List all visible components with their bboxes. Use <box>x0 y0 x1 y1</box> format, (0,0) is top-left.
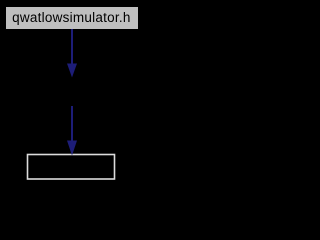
edge arrow 1 (from qwatlowsimulator.h to hidden node) <box>67 29 77 78</box>
svg-text:qwatlowsimulator.h: qwatlowsimulator.h <box>12 10 131 25</box>
node qwatlowsimulator.h <box>6 7 138 29</box>
edge arrow 2 (from hidden node to bottom node) <box>67 106 77 156</box>
node bottom (unlabeled include target) <box>28 155 115 180</box>
